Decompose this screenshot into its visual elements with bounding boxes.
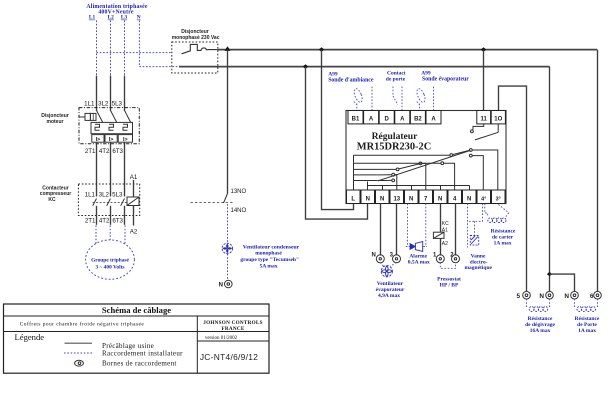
svg-text:de dégivrage: de dégivrage — [525, 322, 555, 328]
svg-text:A: A — [400, 117, 405, 123]
label: Alarme 0,5A max — [408, 254, 430, 266]
svg-text:13: 13 — [393, 196, 400, 202]
defrost relay contact 11-10 — [471, 124, 499, 140]
internal bus line 5 — [354, 180, 378, 182]
svg-text:I>: I> — [96, 137, 101, 143]
terminal N door (borne) — [571, 291, 579, 299]
svg-text:4T2: 4T2 — [99, 218, 110, 225]
contactor KC pole 1 contact — [93, 199, 97, 206]
thermostat HP/BP external link (dashed) — [440, 263, 455, 269]
wire 13 to evap fan terminal — [396, 204, 398, 256]
wire 4T2 to motor — [109, 225, 111, 239]
contactor KC pole 3 contact — [121, 199, 125, 206]
svg-text:3°: 3° — [496, 196, 501, 202]
contact for terminal 13 — [377, 173, 397, 190]
SECTION: supply — [86, 4, 179, 76]
wire neutral bus (horizontal) — [179, 66, 550, 68]
terminal 13 — [390, 190, 404, 204]
label: Résistance de dégivrage 16A max — [525, 316, 555, 334]
svg-text:I>: I> — [123, 137, 128, 143]
svg-text:13NO: 13NO — [231, 189, 247, 195]
svg-text:N: N — [564, 293, 569, 300]
wire N hookup (neutral to regulator N) — [306, 67, 368, 220]
svg-text:1A max: 1A max — [578, 328, 596, 334]
internal bus line 1 — [354, 154, 451, 156]
wire A1 to coil — [133, 180, 135, 197]
svg-text:3L2: 3L2 — [98, 101, 109, 108]
contactor KC enclosure — [78, 184, 139, 216]
label: Vanne électro-magnétique — [464, 254, 492, 272]
wire N to vanne — [467, 204, 469, 248]
wire 2T1 to contactor — [96, 142, 98, 196]
motor M1 Groupe froid circle — [86, 240, 135, 279]
wire L3 drop — [124, 21, 126, 76]
terminal D — [379, 111, 394, 124]
svg-text:L3: L3 — [121, 15, 128, 21]
terminal N (b2) — [376, 190, 390, 204]
terminal N (b3) — [405, 190, 419, 204]
wire 2T1 to motor (installer dashed) — [95, 225, 97, 243]
svg-text:B2: B2 — [414, 117, 422, 123]
svg-text:N: N — [539, 293, 544, 300]
legend table frame — [4, 304, 270, 373]
svg-text:Régulateur: Régulateur — [372, 131, 419, 142]
label: Régulateur MR15DR230-2C — [357, 131, 431, 153]
label: Résistance de carter 1A max — [491, 228, 516, 246]
svg-text:A2: A2 — [442, 241, 448, 247]
svg-text:N: N — [371, 253, 375, 259]
svg-text:4°: 4° — [481, 196, 486, 202]
label: Contacteur compresseur KC — [40, 185, 71, 203]
wire fan to N terminal — [227, 254, 229, 280]
SECTION: legend — [4, 304, 270, 373]
resistor R2 dégivrage (coil) — [529, 307, 548, 312]
svg-text:3 ~ 400 Volts: 3 ~ 400 Volts — [95, 265, 124, 271]
svg-text:4,9A max: 4,9A max — [378, 293, 400, 299]
svg-text:1L1: 1L1 — [84, 101, 95, 108]
junction neutral branch for door heater — [547, 272, 552, 276]
wire L1 drop (installer dashed) — [96, 21, 98, 76]
svg-text:N: N — [366, 196, 370, 202]
svg-text:JC-NT4/6/9/12: JC-NT4/6/9/12 — [200, 352, 258, 362]
internal L feed spine — [353, 155, 355, 190]
wire phase L1 to breaker — [96, 76, 98, 111]
wire 5 to defrost resistor — [526, 299, 528, 308]
terminal N defrost (borne) — [546, 291, 554, 299]
internal bus line 3 — [354, 168, 397, 170]
breaker Q2 manual actuator — [79, 113, 96, 120]
breaker Q2 pole 2 contact — [111, 110, 117, 122]
svg-text:moteur: moteur — [47, 119, 64, 125]
contactor KC pole 2 contact — [107, 199, 111, 206]
svg-text:4T2: 4T2 — [99, 148, 110, 155]
wire 6T3 to motor — [124, 225, 126, 244]
svg-text:N: N — [380, 196, 384, 202]
junction phase/terminal 11 — [481, 47, 487, 52]
svg-text:1A max: 1A max — [494, 240, 512, 246]
svg-text:groupe type "Tecumseh": groupe type "Tecumseh" — [240, 257, 299, 263]
wire 4T2 to contactor — [110, 142, 112, 196]
wire pole1 out — [96, 206, 98, 225]
label: Disjoncteur moteur — [41, 113, 69, 125]
SECTION: breaker1ph — [172, 29, 220, 73]
svg-text:16A max: 16A max — [530, 328, 551, 334]
svg-text:11: 11 — [481, 117, 488, 123]
internal bus line 2 — [354, 162, 441, 164]
relay arm (long diagonal) — [378, 150, 470, 181]
wire N to evap fan terminal — [380, 204, 382, 256]
valve Y1 solenoid symbol — [470, 236, 478, 246]
SECTION: motor — [86, 225, 135, 279]
wire vanne feed — [474, 221, 476, 235]
svg-text:Groupe triphasé: Groupe triphasé — [91, 257, 129, 263]
mechanical link (dashed) — [93, 202, 128, 204]
svg-text:1L1: 1L1 — [85, 191, 96, 198]
SECTION: aux13no — [191, 50, 300, 289]
label: Ventilateur condenseur monophasé groupe type Tecumseh 5A max — [240, 244, 299, 269]
svg-text:FRANCE: FRANCE — [221, 326, 244, 332]
mechanical link (dashed) — [191, 201, 234, 203]
svg-text:Schéma de câblage: Schéma de câblage — [102, 305, 171, 315]
svg-text:N: N — [409, 196, 413, 202]
wire 14NO to condenser fan — [227, 204, 229, 243]
terminal L — [347, 190, 361, 204]
svg-text:A1: A1 — [130, 174, 138, 181]
svg-text:0,5A max: 0,5A max — [408, 260, 430, 266]
svg-text:L1: L1 — [89, 15, 96, 21]
svg-text:B1: B1 — [352, 117, 360, 123]
contact arm (changeover 4/3deg) — [450, 149, 498, 190]
svg-text:6T3: 6T3 — [112, 218, 123, 225]
svg-text:N: N — [219, 283, 223, 289]
wire N borne to fan — [380, 262, 383, 266]
svg-text:1O: 1O — [494, 117, 502, 123]
wire probe to B1 — [356, 104, 358, 111]
SECTION: buses — [179, 46, 598, 291]
breaker Q1 (single-phase) enclosure — [172, 42, 218, 73]
svg-text:2T1: 2T1 — [85, 148, 96, 155]
terminal N (b4) — [434, 190, 448, 204]
svg-text:2T1: 2T1 — [85, 218, 96, 225]
svg-text:HP / BP: HP / BP — [440, 283, 459, 289]
wire phase L3 to breaker — [124, 76, 126, 111]
thermal element pole 1 — [95, 124, 100, 130]
label: Contact de porte — [386, 71, 406, 83]
SECTION: sensors — [328, 71, 469, 110]
terminal 11 — [477, 111, 491, 124]
svg-text:Sonde d'ambiance: Sonde d'ambiance — [328, 78, 374, 84]
svg-text:Raccordement installateur: Raccordement installateur — [102, 350, 183, 358]
svg-text:N: N — [467, 196, 471, 202]
terminal B1 — [348, 111, 363, 124]
wire phase down right side to terminal 6 — [597, 50, 599, 292]
wire N to 1-ph breaker — [139, 66, 179, 68]
svg-text:L: L — [351, 196, 355, 202]
svg-text:N: N — [137, 15, 141, 21]
contact for terminal 7 — [396, 162, 426, 190]
terminal A (2) — [395, 111, 410, 124]
wire KC coil to borne 1 — [440, 238, 442, 255]
wire probe to B2 — [419, 104, 421, 111]
wire N to alarm — [407, 204, 409, 247]
SECTION: motorbreaker — [41, 76, 139, 197]
internal N bus — [368, 182, 470, 191]
legend table row lines — [4, 315, 270, 317]
svg-text:Coffrets pour chambre froide n: Coffrets pour chambre froide négative tr… — [20, 321, 145, 328]
terminal N (b1) — [361, 190, 375, 204]
wire coil to A2 — [133, 206, 135, 226]
wire 4deg to carter resistor — [485, 204, 488, 218]
resistor R3 porte (coil) — [577, 307, 596, 312]
terminal B2 — [410, 111, 425, 124]
wire L1 tap to 1-ph breaker — [97, 52, 172, 54]
legend item: Bornes de raccordement (symbol) — [75, 360, 84, 366]
legend item: Raccordement installateur (dashed line) — [64, 352, 93, 354]
terminal 7 — [419, 190, 433, 204]
svg-text:A: A — [369, 117, 374, 123]
wire N to KC coil — [440, 204, 442, 233]
brand: JOHNSON CONTROLS FRANCE — [203, 320, 263, 332]
svg-text:N: N — [438, 196, 442, 202]
breaker Q2 magnetic trip box pole 3 (I>) — [118, 135, 132, 143]
svg-text:de porte: de porte — [386, 77, 406, 83]
svg-text:Bornes de raccordement: Bornes de raccordement — [102, 359, 177, 367]
svg-text:400V+Neutre: 400V+Neutre — [98, 10, 134, 16]
internal bus line 4 — [354, 174, 378, 176]
sensor B2 evaporator probe (dashed capsule) — [415, 88, 426, 105]
wire phase L2 to breaker — [110, 76, 112, 111]
breaker Q2 pole 1 contact — [97, 110, 103, 122]
terminal 2 (borne) — [452, 255, 460, 263]
legend item: Précâblage usine (solid line) — [65, 342, 93, 344]
svg-text:L2: L2 — [108, 15, 115, 21]
svg-text:magnétique: magnétique — [464, 265, 492, 271]
svg-text:5: 5 — [516, 293, 520, 300]
wire probe to A — [433, 87, 435, 110]
label: Ventilateur évaporateur 4,9A max — [376, 281, 405, 299]
door contact S1 (dashed switch) — [393, 87, 402, 111]
thermal element pole 3 — [123, 124, 128, 130]
fan M3 Ventilateur evaporateur symbol — [381, 266, 392, 277]
contact KC aux 13-14 — [224, 194, 228, 204]
junction phase/13NO — [225, 46, 231, 51]
terminal 10 — [491, 111, 505, 124]
svg-text:6: 6 — [590, 293, 594, 300]
fan M2 Ventilateur condenseur symbol — [222, 243, 232, 253]
terminal 5 (borne) — [523, 291, 531, 299]
label: Disjoncteur monophasé 230 Vac — [172, 29, 220, 41]
wire N to door resistor — [574, 299, 576, 308]
breaker Q2 magnetic trip box pole 1 (I>) — [92, 135, 104, 143]
label: Résistance de Porte 1A max — [575, 316, 600, 334]
svg-text:KC: KC — [48, 197, 56, 203]
SECTION: rightloads — [516, 291, 601, 334]
svg-text:monophasé: monophasé — [255, 251, 282, 257]
wire neutral branch to door heater N — [550, 274, 575, 292]
wire terminal 11 up to phase bus — [483, 50, 485, 111]
contact arm lower — [377, 179, 394, 182]
wire 4deg to vanne — [468, 204, 483, 222]
wire probe to A — [371, 87, 373, 110]
label: Pressostat HP / BP — [437, 277, 461, 289]
wire neutral down right side — [549, 67, 551, 292]
svg-text:6T3: 6T3 — [112, 148, 123, 155]
svg-text:Résistance: Résistance — [575, 316, 600, 322]
wire 3deg to carter resistor — [498, 205, 508, 217]
svg-text:A: A — [431, 117, 436, 123]
coil KC (A1-A2) — [127, 197, 139, 206]
terminal 3deg — [492, 190, 506, 204]
alarm H1 symbol — [406, 242, 427, 252]
breaker Q2 thermal element block — [91, 122, 133, 133]
svg-text:monophasé 230 Vac: monophasé 230 Vac — [172, 35, 220, 41]
coil KC (by regulator) — [433, 232, 444, 238]
terminal 4 — [448, 190, 462, 204]
svg-text:I>: I> — [109, 137, 114, 143]
wire 6 to door resistor — [597, 299, 599, 308]
wire 4 to borne 2 — [455, 204, 457, 256]
wire phase bus 230V (top horizontal) — [218, 49, 598, 51]
svg-text:5L3: 5L3 — [112, 191, 123, 198]
wire N to defrost resistor — [549, 299, 551, 308]
svg-text:Sonde évaporateur: Sonde évaporateur — [422, 77, 469, 83]
label: A99 Sonde d'ambiance — [328, 72, 374, 84]
svg-text:Résistance: Résistance — [528, 316, 553, 322]
svg-text:5A max: 5A max — [260, 263, 278, 269]
terminal N (b5) — [463, 190, 477, 204]
svg-text:version 01/2002: version 01/2002 — [205, 336, 238, 341]
SECTION: contactor — [40, 174, 140, 235]
label: Groupe triphasé 3~400 Volts — [91, 257, 129, 270]
svg-text:de Porte: de Porte — [577, 322, 597, 328]
svg-text:A2: A2 — [130, 228, 138, 235]
terminal 3 (evap fan borne) — [393, 255, 401, 263]
breaker Q2 magnetic trip box pole 2 (I>) — [105, 135, 117, 143]
wire 7 to alarm — [425, 204, 427, 247]
wire pole2 out — [110, 206, 112, 225]
label: A99 Sonde évaporateur — [421, 71, 469, 83]
breaker Q1 contact/trip curve — [182, 44, 218, 53]
contact for terminal 4 — [441, 162, 455, 190]
label: Alimentation triphasée 400V+Neutre — [86, 4, 147, 16]
terminal 4deg — [477, 190, 491, 204]
junction phase/L — [319, 47, 325, 52]
terminal 1 (borne) — [436, 255, 444, 263]
breaker Q2 (motor) enclosure — [79, 108, 139, 144]
SECTION: regulator — [346, 111, 506, 204]
sensor B1 ambient probe (dashed capsule) — [353, 88, 364, 105]
wire phase to 13NO — [227, 50, 229, 194]
svg-text:Légende: Légende — [15, 332, 45, 342]
svg-text:14NO: 14NO — [231, 208, 247, 214]
terminal 6 (borne) — [594, 291, 602, 299]
terminal A (3) — [426, 111, 441, 124]
junction neutral/N — [303, 64, 309, 69]
terminal A (1) — [364, 111, 379, 124]
wire L hookup (phase to regulator L) — [322, 50, 354, 210]
wire pole3 out — [124, 206, 126, 225]
svg-text:KC: KC — [442, 221, 449, 227]
svg-text:3L2: 3L2 — [99, 191, 110, 198]
thermal element pole 2 — [109, 124, 114, 130]
resistor R1 carter (coil) — [488, 218, 506, 223]
wire L2 drop — [110, 21, 112, 76]
svg-text:MR15DR230-2C: MR15DR230-2C — [357, 142, 431, 153]
SECTION: bottomloads — [371, 204, 515, 300]
svg-text:Ventilateur condenseur: Ventilateur condenseur — [243, 244, 300, 250]
wire 3 borne to fan — [391, 262, 397, 266]
wire N drop — [138, 21, 140, 67]
svg-text:5L3: 5L3 — [112, 101, 123, 108]
breaker Q2 pole 3 contact — [125, 110, 131, 122]
terminal N (evap fan borne) — [376, 255, 384, 263]
wire 6T3 to contactor — [124, 142, 126, 196]
wire terminal 10 to defrost feed — [499, 86, 527, 292]
terminal N (borne) — [225, 280, 233, 288]
controller U1 MR15DR230-2C outline — [346, 111, 506, 204]
svg-text:D: D — [385, 117, 390, 123]
